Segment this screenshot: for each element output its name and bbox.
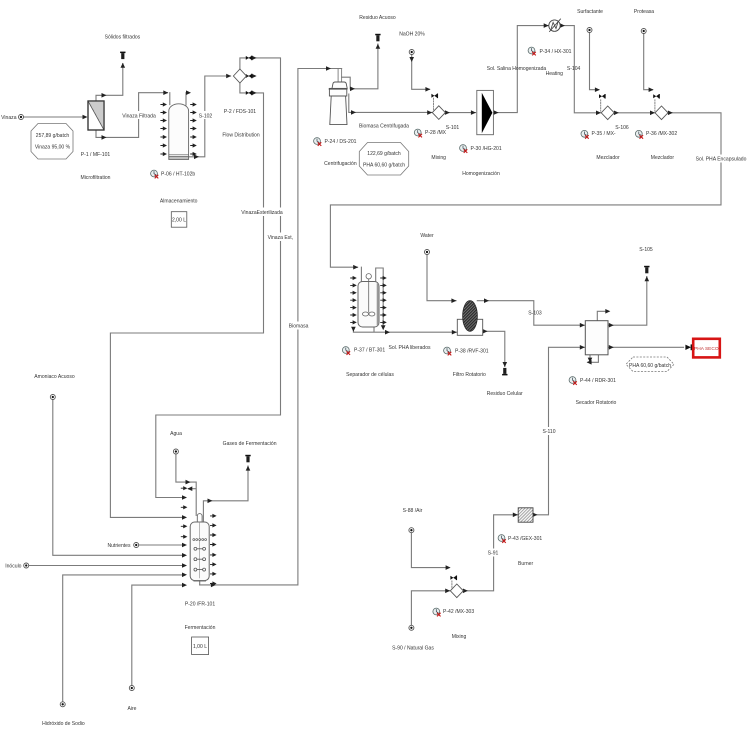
clock icon P-30 (460, 145, 467, 153)
svg-text:Hidróxido de Sodio: Hidróxido de Sodio (42, 721, 85, 727)
heat arrows left of tank (160, 102, 167, 156)
wire splitter middle branch stub (246, 75, 251, 77)
port Hidroxido de Sodio input (60, 702, 65, 707)
port Proteasa input (641, 29, 646, 34)
wire PHA SECO: dryer product out (608, 346, 684, 348)
unit P-28 / MX mixer diamond (432, 106, 445, 120)
wire Biomasa Centrifugada: centrifuge out to mixer P-28 (349, 94, 432, 112)
svg-text:Separador de células: Separador de células (346, 372, 394, 378)
clock icon P-36 (635, 130, 642, 138)
port Gases de Fermentacion output (245, 455, 250, 463)
wire tank HT-102b vent stub (186, 93, 189, 105)
wire dryer bottom feet (588, 355, 598, 363)
wire S-91: mixer P-42 out up to burner GEX-301 (463, 515, 517, 591)
wire Sol PHA Encapsulado: P-36 out looping to separator BT-301 (330, 113, 721, 281)
svg-text:PHA 60,60 g/batch: PHA 60,60 g/batch (629, 363, 671, 369)
svg-text:Vinaza 95,00 %: Vinaza 95,00 % (35, 145, 71, 151)
wire centrifuge feed pipe (338, 69, 342, 83)
dotted drop NaOH to P-28 (433, 98, 435, 111)
port Surfactante input (587, 28, 592, 33)
port Nutrientes input (134, 543, 139, 548)
wire S-105: dryer vapor out to port (608, 277, 647, 326)
PHA SECO highlighted box (693, 339, 720, 358)
svg-text:Vinaza Est,: Vinaza Est, (268, 235, 293, 241)
wire S-102: tank out to splitter FDS-101 (189, 76, 231, 157)
svg-text:Centrifugación: Centrifugación (324, 161, 357, 167)
svg-text:Sol. PHA Encapsulado: Sol. PHA Encapsulado (696, 157, 747, 163)
svg-text:S-106: S-106 (615, 125, 629, 131)
value box 2,00 L under Almacenamiento (171, 212, 187, 228)
unit P-42 / MX-303 mixer diamond (450, 584, 463, 598)
svg-text:Surfactante: Surfactante (577, 9, 603, 15)
svg-text:Amoniaco Acuoso: Amoniaco Acuoso (34, 374, 75, 380)
unit P-06 / HT-102b storage tank (169, 104, 189, 160)
svg-text:Biomasa Centrifugada: Biomasa Centrifugada (359, 124, 409, 130)
svg-text:P-24 / DS-201: P-24 / DS-201 (325, 139, 357, 145)
dotted drop Surfactante to P-35 (600, 100, 602, 111)
wire S-110: burner out up to dryer (533, 347, 584, 515)
svg-text:Burner: Burner (518, 561, 533, 567)
wire S-90 Natural Gas to mixer P-42 (411, 591, 449, 625)
svg-text:S-101: S-101 (446, 125, 460, 131)
dotted drop Proteasa to P-36 (654, 100, 656, 111)
clock icon P-38 (444, 347, 451, 355)
svg-text:P-43 /GEX-301: P-43 /GEX-301 (508, 536, 542, 542)
svg-text:P-44 / RDR-301: P-44 / RDR-301 (580, 378, 616, 384)
svg-text:NaOH 20%: NaOH 20% (399, 31, 425, 37)
clock icon P-34 (528, 47, 535, 55)
svg-text:VinazaEsterilizada: VinazaEsterilizada (241, 210, 283, 216)
wire S-103: filter out to dryer RDR-301 (477, 301, 584, 326)
wire Surfactante to mixer P-35 (590, 33, 599, 90)
wire Amoniaco Acuoso to fermenter (53, 400, 185, 555)
svg-text:Secador Rotatorio: Secador Rotatorio (576, 400, 617, 406)
svg-text:Inóculo: Inóculo (5, 564, 21, 570)
svg-text:Mezclador: Mezclador (651, 155, 675, 161)
svg-text:P-42 /MX-303: P-42 /MX-303 (443, 609, 474, 615)
label backgrounds where text sits on wires (123, 111, 745, 557)
svg-text:Vinaza: Vinaza (1, 115, 17, 121)
svg-text:P-1 / MF-101: P-1 / MF-101 (81, 152, 111, 158)
arrowheads on wires (83, 23, 673, 593)
unit P-34 / HX-301 heater (549, 19, 561, 32)
unit P-2 / FDS-101 flow splitter diamond (233, 69, 246, 83)
svg-text:Agua: Agua (170, 431, 182, 437)
callout PHA 60,60 g/batch dried (626, 357, 674, 372)
svg-text:P-06 / HT-102b: P-06 / HT-102b (161, 172, 195, 178)
unit P-24 / DS-201 centrifuge (329, 82, 347, 125)
svg-text:Biomasa: Biomasa (289, 324, 309, 330)
svg-text:Microfiltration: Microfiltration (80, 175, 110, 181)
unit P-43 / GEX-301 burner (518, 508, 533, 522)
wire Sol PHA liberados: separator out to rotary filter RVF-301 (353, 327, 456, 332)
wire Biomasa: fermenter out to centrifuge DS-201 (200, 69, 342, 585)
port Solidos filtrados output (120, 52, 125, 60)
svg-text:Heating: Heating (546, 71, 564, 77)
wire VinazaEsterilizada: splitter bottom branch to fermenter (110, 83, 263, 518)
svg-text:2,00 L: 2,00 L (172, 218, 186, 224)
port NaOH 20% input (409, 50, 414, 55)
callout Vinaza 257,89 g/batch (31, 124, 73, 160)
svg-text:S-88 /Air: S-88 /Air (403, 508, 423, 514)
clock icon P-28 (414, 129, 421, 137)
svg-text:Sol. Salina Homogenizada: Sol. Salina Homogenizada (487, 66, 547, 72)
svg-text:P-28 /MX: P-28 /MX (425, 130, 447, 136)
svg-text:Vinaza Filtrada: Vinaza Filtrada (122, 114, 156, 120)
wire Residuo Acuoso: centrifuge overflow to port (342, 44, 378, 89)
svg-text:Mezclador: Mezclador (596, 155, 620, 161)
dotted drop S-88 to P-42 (451, 581, 453, 589)
port S-88 Air input (409, 528, 414, 533)
heat arrows left of fermenter (181, 486, 188, 539)
wire MF-101 solids out to Solidos filtrados port (96, 64, 123, 102)
heat arrows right of tank (190, 102, 197, 156)
svg-text:S-90 / Natural Gas: S-90 / Natural Gas (392, 646, 434, 652)
wire Proteasa to mixer P-36 (644, 34, 653, 90)
svg-text:257,89 g/batch: 257,89 g/batch (36, 133, 70, 139)
wire S-88 Air to mixer P-42 (411, 533, 449, 568)
svg-text:Nutrientes: Nutrientes (107, 543, 130, 549)
tie symbols near splitter and mixers (246, 56, 660, 581)
heat arrows right of fermenter (210, 514, 217, 586)
heat arrows right of separator (380, 276, 387, 325)
svg-text:PHA SECO: PHA SECO (694, 346, 719, 352)
wire Vinaza Filtrada: MF-101 bottom out to tank HT-102b (96, 93, 170, 138)
wire S-106: P-35 out to mixer P-36 (614, 112, 654, 114)
svg-text:PHA 60,60 g/batch: PHA 60,60 g/batch (363, 163, 405, 169)
svg-text:Residuo Acuoso: Residuo Acuoso (359, 15, 396, 21)
wire Sol Salina Homogenizada / S-104: HX-301 out down to mixer P-35 (560, 26, 600, 113)
connector into PHA SECO box (685, 344, 692, 350)
svg-text:S-104: S-104 (567, 66, 581, 72)
svg-text:P-30 /HG-201: P-30 /HG-201 (471, 146, 502, 152)
port S-105 output (644, 266, 649, 274)
port Amoniaco Acuoso input (50, 395, 55, 400)
svg-text:Sólidos filtrados: Sólidos filtrados (105, 35, 141, 41)
unit P-36 / MX-302 mixer diamond (655, 106, 668, 120)
value box 1,00 L under Fermentacion (192, 637, 209, 655)
clock icon P-37 (342, 347, 349, 355)
clock icon P-43 (498, 535, 505, 543)
svg-text:Fermentación: Fermentación (185, 625, 216, 631)
svg-text:P-37 / BT-301: P-37 / BT-301 (354, 348, 385, 354)
wire Gases de Fermentacion: fermenter top out to port (203, 466, 248, 522)
svg-text:Residuo Celular: Residuo Celular (487, 391, 523, 397)
svg-text:S-105: S-105 (639, 247, 653, 253)
unit P-1 / MF-101 microfilter (88, 101, 104, 130)
unit P-37 / BT-301 cell separator vessel (358, 274, 379, 327)
wire Vinaza Est: splitter top branch to fermenter (156, 58, 281, 498)
unit P-35 / MX-302 mixer diamond (601, 106, 614, 120)
wire S-101: P-28 out to homogenizer HG-201 (445, 112, 475, 114)
clock icon P-35 (581, 130, 588, 138)
svg-text:Sol. PHA liberados: Sol. PHA liberados (388, 345, 431, 351)
svg-text:Homogenización: Homogenización (462, 171, 500, 177)
port Residuo Acuoso output (375, 34, 380, 42)
clock icon P-42 (433, 608, 440, 616)
heat arrows left of separator (350, 276, 357, 325)
wire Aire to fermenter bottom (132, 585, 185, 685)
wire NaOH 20% to mixer P-28 (412, 55, 430, 89)
wire Agua to fermenter top (176, 454, 196, 515)
svg-text:S-103: S-103 (528, 311, 542, 317)
svg-text:P-38 /RVF-301: P-38 /RVF-301 (455, 349, 489, 355)
clock icon P-06 (151, 170, 158, 178)
svg-text:Flow Distribution: Flow Distribution (222, 133, 259, 139)
port Residuo Celular output (502, 368, 507, 376)
svg-text:S-102: S-102 (199, 114, 213, 120)
svg-text:P-34 / HX-301: P-34 / HX-301 (540, 49, 572, 55)
port Aire input (129, 686, 134, 691)
unit P-44 / RDR-301 rotary dryer (585, 321, 608, 355)
svg-text:Filtro Rotatorio: Filtro Rotatorio (453, 372, 486, 378)
svg-text:P-36 /MX-302: P-36 /MX-302 (646, 131, 677, 137)
unit P-20 / FR-101 fermenter vessel (190, 514, 209, 585)
wire separator top-right stub down right side (376, 268, 384, 328)
wire Vinaza feed to MF-101 (24, 116, 87, 118)
port Inoculo input (24, 563, 29, 568)
svg-text:Mixing: Mixing (452, 634, 467, 640)
svg-text:S-110: S-110 (542, 429, 555, 435)
wire Inoculo to fermenter (29, 565, 185, 567)
svg-text:122,69 g/batch: 122,69 g/batch (367, 151, 401, 157)
svg-text:Proteasa: Proteasa (634, 9, 654, 15)
svg-text:P-35 / MX-: P-35 / MX- (592, 131, 616, 137)
wire Residuo Celular: filter out down to port (483, 331, 505, 366)
port Vinaza input (19, 115, 24, 120)
wire Nutrientes to fermenter (139, 544, 185, 546)
clock icon P-44 (569, 377, 576, 385)
svg-text:S-91: S-91 (488, 551, 499, 557)
unit P-30 / HG-201 homogenizer (477, 90, 494, 134)
svg-text:Mixing: Mixing (431, 155, 446, 161)
callout 122,69 g/batch PHA (359, 143, 408, 176)
svg-text:Water: Water (420, 233, 434, 239)
unit P-38 / RVF-301 rotary vacuum filter (457, 301, 482, 336)
svg-text:P-20 /FR-101: P-20 /FR-101 (185, 602, 215, 608)
svg-text:Aire: Aire (128, 706, 137, 712)
clock icon P-24 (314, 138, 321, 146)
svg-text:Almacenamiento: Almacenamiento (160, 199, 198, 205)
port S-90 Natural Gas input (409, 625, 414, 630)
wire Water to rotary filter (427, 255, 456, 301)
wire Hidroxido de Sodio to fermenter (63, 575, 185, 702)
svg-text:Gases de Fermentación: Gases de Fermentación (223, 441, 277, 447)
port Water input (425, 250, 430, 255)
port Agua input (173, 449, 178, 454)
wire dryer top vent stub (597, 311, 608, 320)
svg-text:P-2 / FDS-101: P-2 / FDS-101 (224, 109, 256, 115)
svg-text:1,00 L: 1,00 L (193, 644, 207, 650)
wire homogenizer out up to heater HX-301 (494, 26, 549, 113)
